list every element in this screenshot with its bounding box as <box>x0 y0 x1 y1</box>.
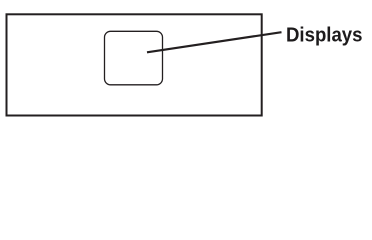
leader line <box>147 32 282 52</box>
display window <box>105 31 163 85</box>
device enclosure outline <box>7 14 262 115</box>
svg-text:Displays: Displays <box>286 23 363 46</box>
